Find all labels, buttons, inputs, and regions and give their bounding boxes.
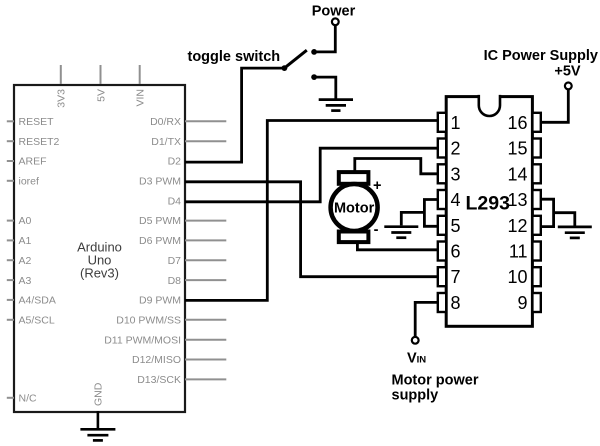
svg-text:D2: D2 — [168, 156, 182, 168]
ground (switch) — [319, 100, 353, 111]
svg-text:IC Power Supply: IC Power Supply — [484, 48, 598, 64]
L293 pin 15 pad — [532, 139, 540, 158]
wire switch upper contact to Power terminal — [314, 25, 335, 52]
pin AREF (Arduino left) — [7, 156, 47, 168]
svg-text:VIN: VIN — [135, 89, 147, 107]
L293 pin 11 pad — [532, 242, 540, 261]
L293 pin 7 pad — [438, 267, 446, 286]
pin GND (Arduino bottom) — [93, 382, 105, 428]
svg-text:6: 6 — [451, 242, 461, 262]
pin D10 PWM/SS (Arduino right) — [116, 315, 226, 327]
svg-text:D9 PWM: D9 PWM — [139, 295, 181, 307]
wire L293 pin 8 to Vin terminal — [415, 302, 438, 337]
svg-text:D13/SCK: D13/SCK — [137, 374, 181, 386]
svg-text:5V: 5V — [95, 89, 107, 102]
Power terminal circle — [332, 18, 339, 25]
svg-text:A4/SDA: A4/SDA — [19, 295, 56, 307]
svg-text:-: - — [374, 222, 379, 238]
switch lower contact dot — [311, 74, 317, 80]
pin D13/SCK (Arduino right) — [137, 374, 226, 386]
pin D11 PWM/MOSI (Arduino right) — [104, 334, 226, 346]
motor M1 bottom terminal block — [339, 232, 369, 243]
svg-text:supply: supply — [392, 388, 439, 404]
svg-text:A2: A2 — [19, 255, 32, 267]
svg-text:D11 PWM/MOSI: D11 PWM/MOSI — [104, 334, 181, 346]
svg-text:Power: Power — [312, 3, 356, 19]
svg-text:D0/RX: D0/RX — [150, 116, 181, 128]
pin D7 (Arduino right) — [168, 255, 227, 267]
pin RESET2 (Arduino left) — [7, 136, 60, 148]
svg-text:Motor: Motor — [334, 201, 375, 217]
svg-text:N/C: N/C — [19, 393, 38, 405]
svg-text:+: + — [373, 178, 381, 194]
svg-text:15: 15 — [507, 139, 527, 159]
svg-text:11: 11 — [509, 242, 528, 262]
svg-text:2: 2 — [451, 139, 461, 159]
svg-text:GND: GND — [93, 382, 105, 406]
svg-text:5: 5 — [451, 216, 461, 236]
svg-text:10: 10 — [507, 267, 527, 287]
wire motor - terminal to L293 pin 6 — [357, 243, 437, 250]
wire D4 to L293 pin 2 — [185, 148, 438, 202]
pin A4/SDA (Arduino left) — [7, 295, 56, 307]
svg-text:7: 7 — [451, 267, 461, 287]
svg-text:13: 13 — [507, 190, 527, 210]
svg-text:D7: D7 — [168, 255, 182, 267]
L293 pin 8 pad — [438, 293, 446, 312]
svg-text:(Rev3): (Rev3) — [80, 265, 119, 280]
wire L293 pin 16 to +5V terminal — [541, 89, 569, 122]
pin N/C (Arduino left) — [7, 393, 37, 405]
svg-text:+5V: +5V — [554, 64, 581, 80]
svg-text:toggle switch: toggle switch — [188, 49, 281, 65]
svg-text:1: 1 — [451, 113, 461, 133]
svg-text:A1: A1 — [19, 235, 32, 247]
wire D2 to toggle switch — [185, 68, 283, 162]
toggle switch SW1 lever — [284, 50, 306, 68]
wire L293 pins 13,12 to ground — [541, 199, 554, 226]
L293 pin 5 pad — [438, 216, 446, 235]
wire L293 pins 4,5 to ground — [424, 200, 437, 227]
svg-text:D12/MISO: D12/MISO — [132, 354, 181, 366]
L293 pin 12 pad — [532, 216, 540, 235]
svg-text:A0: A0 — [19, 215, 32, 227]
pin 3V3 (Arduino top) — [56, 65, 68, 108]
svg-text:ioref: ioref — [19, 176, 40, 188]
pin A1 (Arduino left) — [7, 235, 32, 247]
pin D8 (Arduino right) — [168, 275, 227, 287]
L293 pin 3 pad — [438, 164, 446, 183]
+5V terminal circle — [565, 83, 572, 90]
svg-text:12: 12 — [507, 216, 527, 236]
wire switch lower contact to ground — [314, 77, 336, 98]
svg-text:3V3: 3V3 — [56, 89, 68, 108]
svg-text:D6 PWM: D6 PWM — [139, 235, 181, 247]
svg-text:16: 16 — [507, 113, 527, 133]
pin A0 (Arduino left) — [7, 215, 32, 227]
L293 pin 14 pad — [532, 164, 540, 183]
IC notch — [479, 95, 500, 116]
op IC U2 L293 body — [446, 97, 532, 327]
svg-text:D10 PWM/SS: D10 PWM/SS — [116, 315, 181, 327]
pin D1/TX (Arduino right) — [151, 136, 226, 148]
Vin terminal circle — [412, 337, 419, 344]
svg-text:D3 PWM: D3 PWM — [139, 176, 181, 188]
ground (L293 pins 13,12) — [558, 227, 592, 238]
pin D3 PWM (Arduino right) — [139, 176, 181, 188]
motor M1 top terminal block — [339, 172, 369, 184]
pin A5/SCL (Arduino left) — [7, 315, 55, 327]
pin D4 (Arduino right) — [168, 195, 182, 207]
pin D2 (Arduino right) — [168, 156, 182, 168]
svg-text:D8: D8 — [168, 275, 182, 287]
svg-text:L293: L293 — [465, 192, 510, 214]
switch common contact dot — [282, 65, 288, 71]
L293 pin 6 pad — [438, 242, 446, 261]
svg-text:D1/TX: D1/TX — [151, 136, 181, 148]
pin D0/RX (Arduino right) — [150, 116, 226, 128]
L293 pin 4 pad — [438, 190, 446, 209]
svg-text:A5/SCL: A5/SCL — [19, 315, 55, 327]
wire D9 PWM to L293 pin 1 — [185, 121, 438, 301]
L293 pin 16 pad — [532, 113, 540, 132]
ground (L293 pins 4,5) — [384, 227, 418, 238]
pin RESET (Arduino left) — [7, 116, 54, 128]
svg-text:4: 4 — [451, 190, 461, 210]
wire D3 PWM to L293 pin 7 — [185, 182, 438, 277]
wire motor + terminal to L293 pin 3 — [355, 159, 438, 174]
pin D9 PWM (Arduino right) — [139, 295, 181, 307]
pin D5 PWM (Arduino right) — [139, 215, 226, 227]
L293 pin 13 pad — [532, 190, 540, 209]
svg-text:RESET2: RESET2 — [19, 136, 60, 148]
ground (Arduino GND) — [80, 429, 115, 440]
motor M1 body circle — [331, 184, 378, 231]
svg-text:D4: D4 — [168, 195, 182, 207]
pin VIN (Arduino top) — [135, 65, 147, 107]
pin A3 (Arduino left) — [7, 275, 32, 287]
pin D12/MISO (Arduino right) — [132, 354, 226, 366]
svg-text:8: 8 — [451, 293, 461, 313]
svg-text:D5 PWM: D5 PWM — [139, 215, 181, 227]
switch upper contact dot — [311, 49, 317, 55]
L293 pin 1 pad — [438, 113, 446, 132]
svg-text:AREF: AREF — [19, 156, 47, 168]
svg-text:RESET: RESET — [19, 116, 55, 128]
L293 pin 10 pad — [532, 267, 540, 286]
Arduino Uno U1 body — [14, 85, 185, 412]
pin A2 (Arduino left) — [7, 255, 32, 267]
pin ioref (Arduino left) — [7, 176, 39, 188]
svg-text:3: 3 — [451, 164, 461, 184]
svg-text:A3: A3 — [19, 275, 32, 287]
svg-text:Motor power: Motor power — [392, 373, 479, 389]
pin D6 PWM (Arduino right) — [139, 235, 226, 247]
svg-text:9: 9 — [517, 293, 527, 313]
L293 pin 9 pad — [532, 293, 540, 312]
L293 pin 2 pad — [438, 139, 446, 158]
Arduino Uno (Rev3) label — [77, 240, 122, 281]
svg-text:14: 14 — [507, 164, 527, 184]
pin 5V (Arduino top) — [95, 65, 107, 102]
